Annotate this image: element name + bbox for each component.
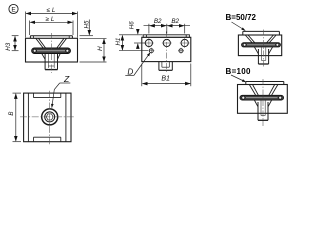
plate outline bbox=[24, 93, 71, 142]
center hole (counterbore) bbox=[42, 109, 58, 125]
block body bbox=[238, 35, 281, 56]
pocket slopes lower bbox=[254, 47, 272, 54]
clamp lip plate bbox=[30, 36, 72, 39]
leader to lip bbox=[232, 22, 246, 31]
svg-text:E: E bbox=[11, 6, 16, 13]
stem / shank bbox=[45, 54, 57, 70]
small hole D left bbox=[148, 48, 154, 54]
lip bbox=[243, 31, 280, 35]
svg-text:B=100: B=100 bbox=[226, 67, 252, 76]
block body (front view) bbox=[26, 38, 78, 62]
small hole D right bbox=[178, 48, 184, 54]
lip band bbox=[143, 35, 189, 38]
hole 2 bbox=[162, 39, 172, 46]
dimension ≤L bbox=[26, 12, 78, 38]
block body bbox=[238, 85, 288, 114]
lip bbox=[246, 82, 284, 85]
pocket slopes lower bbox=[42, 54, 60, 60]
dimension H6 bbox=[134, 29, 146, 48]
svg-text:B2: B2 bbox=[171, 18, 179, 25]
pocket slopes upper bbox=[36, 38, 67, 48]
pocket slopes upper bbox=[249, 85, 278, 96]
dimension ≥L bbox=[30, 21, 74, 36]
pocket slopes upper bbox=[245, 35, 276, 43]
svg-text:H1: H1 bbox=[115, 38, 122, 46]
centerline view1 bbox=[50, 33, 52, 73]
svg-text:Z: Z bbox=[63, 74, 70, 84]
stem bbox=[258, 47, 268, 64]
stem (middle view) bbox=[159, 62, 172, 71]
dimension H3 bbox=[12, 36, 19, 51]
svg-text:H: H bbox=[97, 46, 104, 51]
stem bbox=[258, 100, 268, 120]
pocket edges vertical bbox=[28, 93, 66, 142]
centerline middle view bbox=[165, 32, 167, 74]
svg-text:B1: B1 bbox=[161, 75, 170, 82]
dimension H5 bbox=[80, 20, 94, 36]
centerline view5 bbox=[262, 79, 264, 126]
dimension B bbox=[13, 93, 22, 142]
thread lines in stem bbox=[48, 54, 54, 68]
dimension H bbox=[80, 38, 107, 62]
pocket edges horizontal bbox=[34, 98, 61, 138]
pocket slopes lower bbox=[254, 100, 271, 107]
svg-text:≥ L: ≥ L bbox=[46, 16, 55, 23]
hole 1 bbox=[144, 38, 154, 48]
block body (middle view) bbox=[142, 37, 191, 61]
dimension B2 B2 bbox=[144, 24, 191, 34]
svg-text:H5: H5 bbox=[83, 20, 90, 28]
slot bbox=[242, 43, 281, 47]
svg-text:B: B bbox=[8, 112, 15, 116]
slot bbox=[240, 95, 284, 100]
hole 3 bbox=[180, 38, 190, 48]
dimension H1 bbox=[119, 35, 148, 51]
svg-text:B2: B2 bbox=[154, 18, 162, 25]
centerlines plan view bbox=[20, 91, 75, 144]
slot (spring washer stack) bbox=[32, 48, 71, 54]
dimension B1 bbox=[142, 64, 191, 87]
detail marker circled E bbox=[9, 4, 18, 13]
svg-text:H3: H3 bbox=[5, 42, 12, 50]
svg-text:≤ L: ≤ L bbox=[47, 7, 56, 14]
centerline view4 bbox=[263, 30, 265, 67]
svg-text:B=50/72: B=50/72 bbox=[226, 13, 257, 22]
svg-text:H6: H6 bbox=[129, 21, 136, 29]
corner relief notches bbox=[34, 93, 61, 142]
leader to lip bbox=[231, 75, 246, 82]
hex socket bbox=[46, 114, 53, 120]
